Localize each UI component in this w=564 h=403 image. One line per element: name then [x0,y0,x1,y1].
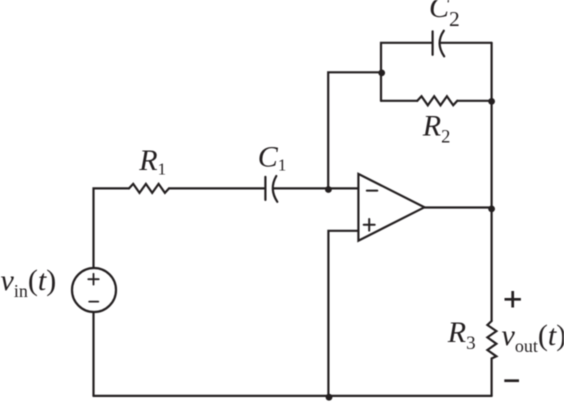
svg-text:vin(t): vin(t) [1,264,57,301]
svg-text:C2: C2 [429,0,460,31]
svg-text:R2: R2 [422,110,451,148]
svg-text:C1: C1 [258,140,287,174]
svg-text:R3: R3 [447,316,476,354]
svg-text:vout(t): vout(t) [502,319,564,356]
svg-text:R1: R1 [138,144,166,179]
